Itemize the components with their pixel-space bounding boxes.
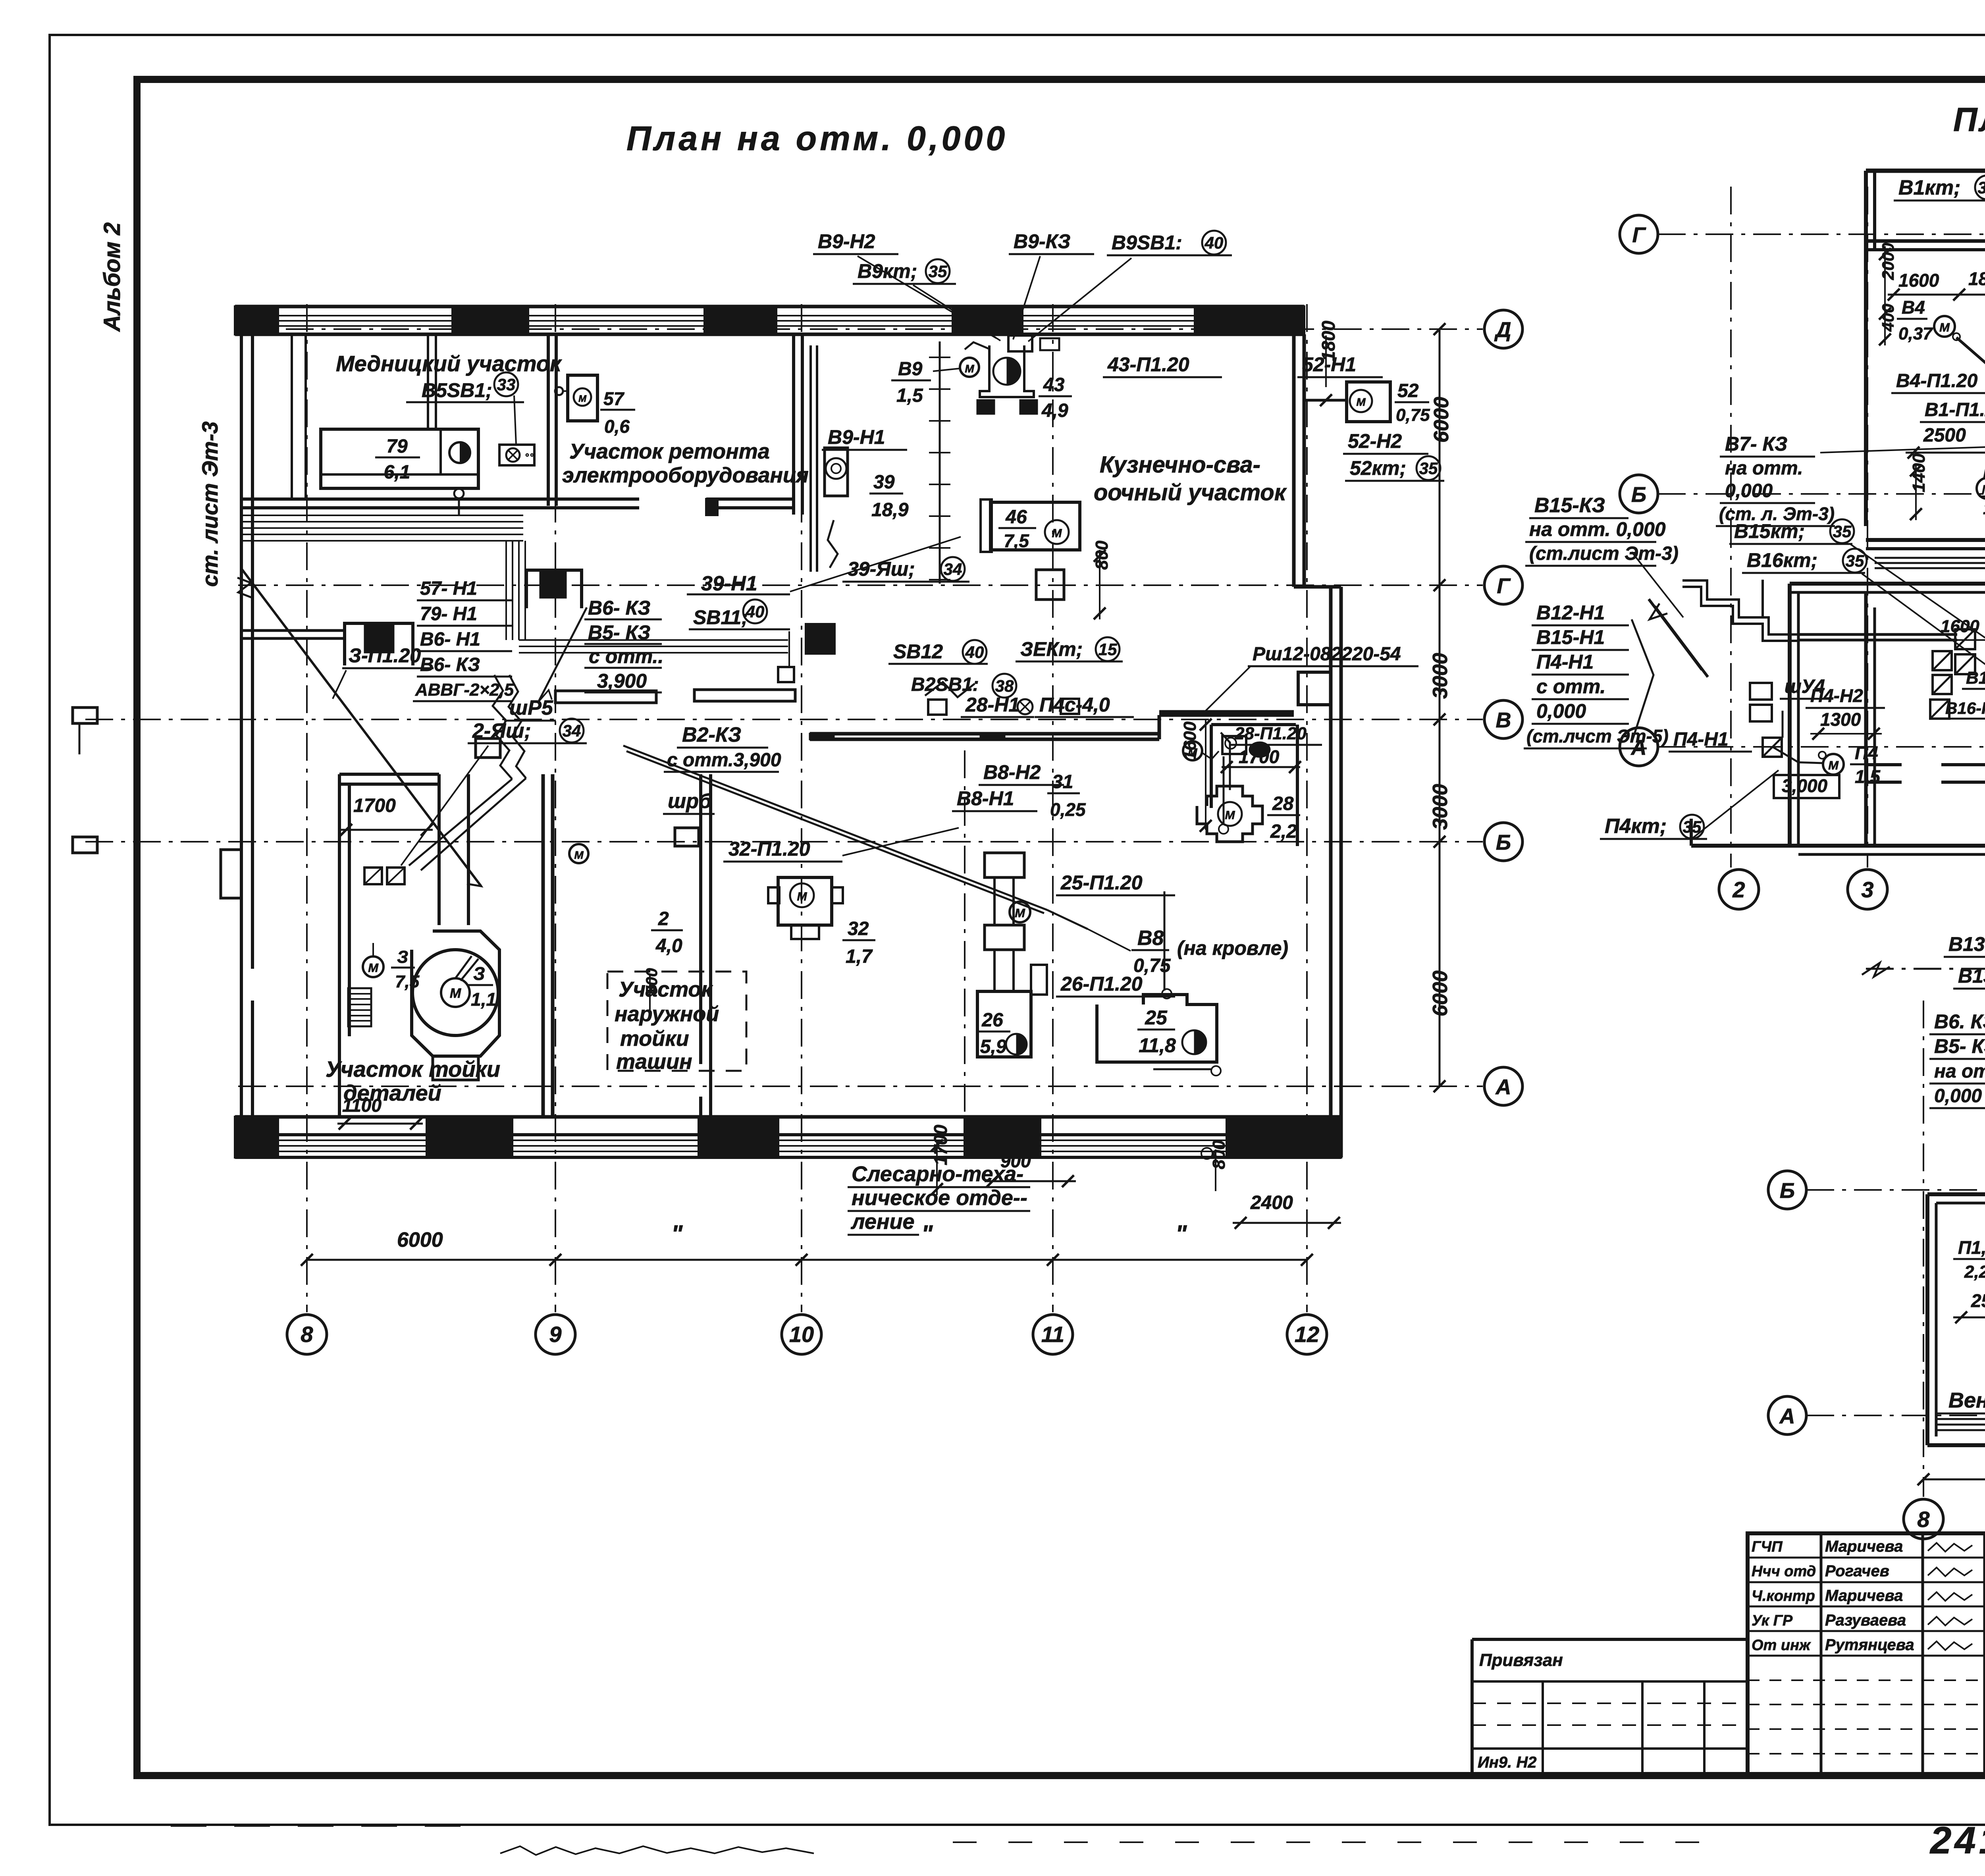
label B6-K3 block <box>584 597 663 692</box>
label B7-K3 block <box>1716 433 1835 526</box>
machine 26 column <box>977 853 1047 1057</box>
svg-text:2500: 2500 <box>1923 425 1966 446</box>
switch B15H2 row <box>1955 629 1975 674</box>
privyazan frame <box>1472 1639 1748 1776</box>
label B9-K3 <box>1009 230 1094 254</box>
svg-text:на отт.: на отт. <box>1934 1061 1985 1082</box>
axis column 10 line <box>801 304 802 1312</box>
svg-text:В5- КЗ: В5- КЗ <box>1934 1035 1985 1057</box>
left wall outer <box>240 307 243 1117</box>
wires knot SW <box>409 675 526 870</box>
svg-text:П1,1: П1,1 <box>1958 1237 1985 1258</box>
svg-text:43: 43 <box>1043 374 1065 395</box>
grid circle А (3.300) <box>1620 728 1658 766</box>
dim 800 v <box>1092 540 1112 619</box>
privyazan bottom row line <box>1472 1747 1748 1750</box>
label slesarno <box>848 1162 1030 1235</box>
svg-text:План на отм. 0,000: План на отм. 0,000 <box>626 120 1008 158</box>
svg-text:35: 35 <box>1846 551 1864 570</box>
svg-text:Г: Г <box>1632 223 1646 247</box>
svg-text:В6- Н1: В6- Н1 <box>420 629 480 650</box>
svg-text:3: 3 <box>1861 877 1873 902</box>
wire B4-B1 diag <box>1956 337 1985 451</box>
plan39 top boundary <box>1862 963 1985 977</box>
label 39/18.9 <box>869 472 909 521</box>
wire 52 <box>1304 394 1347 406</box>
top wall inner line <box>235 333 1304 336</box>
margin text ст.лист ЭМ-3 <box>197 421 222 587</box>
label B1-P1.20 <box>1920 399 1985 422</box>
grid circle 10 <box>782 1315 821 1354</box>
svg-text:39-Яш;: 39-Яш; <box>848 558 915 580</box>
left wall inner <box>251 334 254 1139</box>
svg-text:на отт.: на отт. <box>1725 458 1803 479</box>
svg-text:38: 38 <box>995 677 1014 695</box>
svg-text:М: М <box>1225 809 1235 822</box>
axis row В line <box>85 719 1483 720</box>
svg-text:А: А <box>1779 1404 1795 1428</box>
svg-text:0,37: 0,37 <box>1898 324 1933 343</box>
wire B9 vertical <box>811 345 817 572</box>
svg-text:": " <box>671 1220 683 1247</box>
wall mednitsky bottom right <box>706 499 795 515</box>
svg-text:В15-Н1: В15-Н1 <box>1536 626 1605 648</box>
svg-text:2: 2 <box>1732 877 1745 902</box>
svg-text:М: М <box>797 890 807 903</box>
label B9SB1 <box>1107 231 1232 255</box>
top wall piers <box>235 307 1266 334</box>
svg-text:1700: 1700 <box>353 795 396 816</box>
svg-text:0,25: 0,25 <box>1050 799 1086 820</box>
svg-text:Д: Д <box>1494 318 1511 342</box>
svg-text:М: М <box>1052 527 1062 540</box>
label 43-P1.20 <box>1103 353 1222 377</box>
leader B7-K3 <box>1820 445 1985 453</box>
svg-text:Рогачев: Рогачев <box>1825 1562 1889 1580</box>
wire B15 long <box>1798 634 1957 640</box>
motor corridor <box>569 844 588 863</box>
bottom wall second line <box>235 1133 1341 1136</box>
big machine wash <box>412 931 499 1080</box>
label 57/0.6 <box>600 388 635 437</box>
wire 28 <box>1221 733 1230 790</box>
svg-text:SВ12: SВ12 <box>893 640 943 663</box>
svg-text:900: 900 <box>1000 1151 1031 1171</box>
switch P4 <box>1763 738 1782 757</box>
svg-text:500: 500 <box>643 968 661 995</box>
label shR5 <box>504 696 556 721</box>
top wall glazing <box>278 316 1195 326</box>
switch B15 <box>1933 651 1952 694</box>
svg-text:В7: В7 <box>1983 463 1985 482</box>
label B3km <box>1016 637 1123 661</box>
svg-text:Г: Г <box>1497 574 1511 598</box>
label 3/1.1 <box>468 963 496 1010</box>
svg-text:2-Яш;: 2-Яш; <box>472 719 531 742</box>
svg-text:В9-КЗ: В9-КЗ <box>1014 230 1070 253</box>
box mid <box>1222 736 1270 758</box>
grid circle Б (3.900) <box>1768 1171 1806 1209</box>
bottom wall outer line <box>235 1156 1341 1159</box>
svg-text:План на отт. 3,300: План на отт. 3,300 <box>1953 101 1985 138</box>
svg-text:В6- КЗ: В6- КЗ <box>420 654 480 675</box>
svg-text:40: 40 <box>965 643 984 661</box>
svg-text:Привязан: Привязан <box>1479 1650 1563 1670</box>
NE room right wall <box>1296 725 1299 846</box>
svg-text:3000: 3000 <box>1429 653 1452 699</box>
bracket B12 block <box>1632 619 1654 742</box>
svg-text:(ст.лист Эт-3): (ст.лист Эт-3) <box>1529 543 1679 564</box>
svg-text:1,7: 1,7 <box>846 946 873 967</box>
label B1km <box>1894 175 1985 201</box>
dim 2000 400 v <box>1879 243 1897 345</box>
privyazan text <box>1479 1650 1563 1670</box>
plan33 G wall <box>1866 241 1985 250</box>
hearth 43 <box>977 345 1037 414</box>
signature table rows lower <box>1748 1680 1985 1754</box>
arrow B15-K3 <box>1649 599 1708 677</box>
label 28-P1.20 mid <box>1231 724 1322 745</box>
svg-text:В16-Н2: В16-Н2 <box>1945 699 1985 717</box>
svg-text:33: 33 <box>497 375 516 394</box>
label B4-P1.20 <box>1891 370 1985 393</box>
svg-text:25-П1.20: 25-П1.20 <box>1060 871 1143 894</box>
svg-text:М: М <box>450 986 461 1001</box>
label ventkamera lower39 <box>1948 1388 1985 1412</box>
dim 1600 midv <box>1180 719 1212 832</box>
svg-text:32: 32 <box>848 918 869 939</box>
motor 26 <box>1010 902 1030 922</box>
label kuznechno <box>1094 452 1287 505</box>
plan39 bottom dim <box>1918 1473 1985 1485</box>
wire 28 v <box>1219 756 1228 834</box>
svg-text:Б: Б <box>1780 1179 1795 1203</box>
svg-text:35: 35 <box>1978 178 1985 197</box>
svg-text:В9кт;: В9кт; <box>858 260 917 282</box>
label 25-P1.20 <box>1056 871 1175 895</box>
dim 1700 v2 <box>930 1124 951 1195</box>
machine 79 halfcircle <box>449 442 470 463</box>
grid circle В <box>1484 700 1522 738</box>
svg-text:28-П1.20: 28-П1.20 <box>1234 724 1307 743</box>
wall mednitsky bottom <box>240 499 639 508</box>
svg-text:35: 35 <box>1833 522 1852 541</box>
svg-text:электрооборудования: электрооборудования <box>562 463 809 487</box>
label 3000 box <box>1774 775 1839 798</box>
svg-text:1300: 1300 <box>1820 709 1861 730</box>
svg-text:15: 15 <box>1098 640 1117 659</box>
wire P4 <box>1772 711 1823 763</box>
svg-text:В12-Н1: В12-Н1 <box>1536 602 1605 624</box>
svg-text:Нчч отд: Нчч отд <box>1752 1563 1816 1580</box>
wire leader 3 <box>333 670 346 699</box>
mid wall west <box>555 690 795 703</box>
plan33 ventkamera bottom <box>1866 540 1985 549</box>
svg-text:4,0: 4,0 <box>655 935 682 956</box>
label 1700 mid <box>1221 746 1301 773</box>
dim 900 <box>985 1151 1076 1187</box>
plan33 lower-left block <box>1790 584 1985 846</box>
cabinet shR5 <box>476 738 500 758</box>
svg-text:0,000: 0,000 <box>1536 700 1586 722</box>
axis row А line (3.900) <box>1806 1415 1985 1416</box>
svg-text:1,5: 1,5 <box>1983 499 1985 518</box>
label SB11 <box>689 600 790 629</box>
east wall lower <box>1331 587 1341 1157</box>
motor P4 <box>1819 752 1844 775</box>
east wall notch <box>1298 672 1331 705</box>
svg-text:0,000: 0,000 <box>1725 480 1773 501</box>
label 28/2.2 <box>1267 793 1300 842</box>
svg-text:0,75: 0,75 <box>1396 405 1430 425</box>
svg-text:П4кт;: П4кт; <box>1605 815 1667 838</box>
label B9 M <box>891 358 979 406</box>
axis column 9 line <box>555 304 556 1312</box>
NE room left wall <box>1210 725 1213 808</box>
plan33 bottom wall <box>1691 819 1985 854</box>
svg-text:5,9: 5,9 <box>980 1036 1007 1057</box>
grid circle 9 <box>536 1315 575 1354</box>
label P4-H2 <box>1806 685 1885 740</box>
svg-text:Б: Б <box>1496 831 1511 854</box>
tray end box <box>778 631 794 682</box>
label B16-H2 <box>1941 699 1985 719</box>
signature table names <box>1752 1538 1985 1656</box>
dim 1700 left <box>339 795 433 836</box>
svg-text:1800: 1800 <box>1318 320 1339 361</box>
svg-text:М: М <box>1828 758 1839 772</box>
svg-text:2,2: 2,2 <box>1270 821 1297 842</box>
svg-text:3000: 3000 <box>1429 784 1452 830</box>
label B13km <box>1953 964 1985 989</box>
svg-text:Медницкий участок: Медницкий участок <box>336 351 562 376</box>
svg-text:40: 40 <box>1204 233 1224 252</box>
svg-text:1700: 1700 <box>1239 746 1280 767</box>
label B9km <box>853 259 956 284</box>
grid circle 8 (3.900) <box>1904 1499 1943 1539</box>
label 28-H1 <box>961 694 1034 717</box>
svg-text:Ч.контр: Ч.контр <box>1752 1588 1815 1604</box>
label B4/0.37 <box>1897 297 1933 343</box>
svg-text:с отт.: с отт. <box>1536 675 1605 698</box>
svg-text:0,6: 0,6 <box>604 416 630 437</box>
signature table columns <box>1821 1533 1985 1776</box>
axis row Г line <box>238 584 1483 586</box>
svg-text:ГЧП: ГЧП <box>1752 1539 1783 1555</box>
svg-text:34: 34 <box>944 560 962 578</box>
tray 33 left <box>1761 580 1764 617</box>
svg-text:0,75: 0,75 <box>1133 955 1171 976</box>
label B7/1.5 <box>1979 463 1985 518</box>
svg-text:6000: 6000 <box>1429 970 1452 1016</box>
label B15km (33) <box>1729 519 1854 544</box>
plan33 left wall upper <box>1866 171 1875 526</box>
signature table frame <box>1748 1533 1985 1776</box>
svg-text:М: М <box>1939 320 1950 334</box>
bottom edge dashes <box>171 1826 1707 1842</box>
svg-text:(на кровле): (на кровле) <box>1177 937 1288 959</box>
privyazan dashes <box>1472 1703 1748 1725</box>
wire mid knot <box>925 682 1079 715</box>
wires to machine 79 <box>292 335 436 499</box>
svg-text:2400: 2400 <box>1250 1192 1293 1213</box>
wire 3 diagonal <box>237 569 481 886</box>
leader B16km <box>1862 574 1985 667</box>
fixture 39 <box>825 448 848 496</box>
machine 79 pendant <box>454 489 464 516</box>
title plan 3.300 <box>1953 101 1985 138</box>
label B8-H1 <box>952 787 1037 811</box>
room wash-details left wall <box>339 774 349 1036</box>
svg-text:В: В <box>1496 708 1511 732</box>
left stub wall 2 <box>73 837 97 853</box>
dim ditto 1 <box>671 1220 683 1247</box>
svg-text:1100: 1100 <box>342 1095 382 1116</box>
svg-text:В6. КЗ: В6. КЗ <box>1934 1010 1985 1033</box>
switch B16 <box>1930 700 1949 719</box>
machine 52 box <box>1347 382 1390 422</box>
room wash-details right wall <box>543 774 553 1117</box>
svg-text:М: М <box>1356 396 1366 408</box>
axis row А line <box>238 1085 1483 1087</box>
svg-text:Разуваева: Разуваева <box>1825 1612 1906 1629</box>
machine 25 <box>1097 995 1217 1062</box>
pier P1 <box>345 623 413 665</box>
svg-text:М: М <box>1015 906 1025 920</box>
svg-text:ЗЕКт;: ЗЕКт; <box>1020 638 1083 660</box>
svg-text:Рутянцева: Рутянцева <box>1825 1636 1914 1654</box>
svg-text:11,8: 11,8 <box>1139 1034 1176 1057</box>
label P4km <box>1600 815 1707 839</box>
label B5SB1 <box>406 372 524 402</box>
svg-text:с отт.3,900: с отт.3,900 <box>667 750 781 771</box>
right dimension line <box>1434 323 1445 1092</box>
svg-text:(ст. л. Эт-3): (ст. л. Эт-3) <box>1719 503 1835 524</box>
wall P1 left <box>241 630 345 638</box>
svg-text:25: 25 <box>1145 1006 1168 1029</box>
svg-text:12: 12 <box>1295 1322 1319 1347</box>
svg-text:В9: В9 <box>898 359 923 380</box>
svg-text:В9SВ1:: В9SВ1: <box>1112 231 1182 254</box>
dim text 6000 <box>397 1228 443 1251</box>
svg-text:П4-Н1: П4-Н1 <box>1536 651 1594 673</box>
svg-text:Ин9. Н2: Ин9. Н2 <box>1478 1754 1537 1771</box>
svg-text:тойки: тойки <box>620 1027 689 1051</box>
plan33 top wall <box>1866 159 1985 177</box>
label 43/4.9 <box>1039 374 1072 421</box>
svg-text:В8: В8 <box>1137 927 1164 950</box>
privyazan verticals <box>1543 1681 1704 1776</box>
grid circle 3 (3.300) <box>1848 870 1887 909</box>
label P4/1.5 <box>1850 742 1881 787</box>
plan39 left room top <box>1927 1194 1985 1203</box>
grid circle Г (3.300) <box>1620 215 1658 253</box>
dim 500 <box>643 968 661 1010</box>
cabinet shrb <box>675 828 699 846</box>
svg-text:2: 2 <box>658 908 669 929</box>
svg-text:2,2: 2,2 <box>1964 1262 1985 1282</box>
label 52-H1 <box>1297 353 1383 377</box>
svg-text:34: 34 <box>563 721 581 740</box>
svg-text:П4-Н2: П4-Н2 <box>1810 685 1863 706</box>
svg-text:1600: 1600 <box>1898 270 1939 291</box>
machine 79 rect <box>321 429 478 488</box>
svg-text:0,000: 0,000 <box>1934 1085 1982 1107</box>
svg-text:В2-КЗ: В2-КЗ <box>682 723 741 746</box>
svg-text:Маричева: Маричева <box>1825 1587 1903 1604</box>
label elektro room <box>562 440 809 487</box>
wires B9 top <box>858 256 1131 349</box>
box shU4 <box>1750 683 1772 721</box>
svg-text:28: 28 <box>1272 793 1294 814</box>
svg-text:М: М <box>1982 482 1985 496</box>
small box below 46 <box>1036 570 1064 600</box>
label block 57-79-B6 <box>413 578 514 701</box>
NE room top wall <box>1211 723 1296 726</box>
svg-text:М: М <box>965 362 974 375</box>
stairs hatch <box>348 988 371 1026</box>
axis column 8 line (3.900) <box>1923 1001 1924 1497</box>
cable tray bundle vertical <box>506 541 525 640</box>
svg-text:35: 35 <box>929 262 947 281</box>
label naruzhnaya <box>615 978 719 1074</box>
svg-text:В4: В4 <box>1902 297 1925 318</box>
axis column 3 line (3.300) <box>1867 187 1868 868</box>
plan33 interior wall band <box>1866 760 1985 782</box>
label B8 <box>1131 927 1288 976</box>
label B9-H1 <box>822 426 907 450</box>
svg-text:В7- КЗ: В7- КЗ <box>1725 433 1787 455</box>
axis column 12 line <box>1306 304 1308 1312</box>
svg-text:ст. лист Эт-3: ст. лист Эт-3 <box>197 421 222 587</box>
svg-text:В15-КЗ: В15-КЗ <box>1534 494 1605 517</box>
label 39-ASh <box>842 557 969 582</box>
svg-text:32-П1.20: 32-П1.20 <box>728 838 810 860</box>
svg-text:Участок тойки: Участок тойки <box>326 1057 500 1082</box>
wall mednitsky right <box>548 335 556 506</box>
svg-text:6,1: 6,1 <box>384 462 410 483</box>
handwritten 24128-02 <box>1929 1819 1985 1862</box>
svg-text:28-Н1: 28-Н1 <box>965 694 1019 716</box>
svg-text:А: А <box>1495 1075 1511 1099</box>
pier P2 <box>526 570 582 608</box>
svg-text:26: 26 <box>981 1010 1003 1031</box>
svg-text:9: 9 <box>549 1322 561 1347</box>
svg-text:1700: 1700 <box>930 1124 951 1165</box>
label shrb <box>663 790 715 814</box>
slesarno left wall <box>964 750 966 1116</box>
label 1400 v <box>1909 453 1929 520</box>
svg-text:7,5: 7,5 <box>395 972 420 991</box>
svg-text:24128 -02: 24128 -02 <box>1929 1819 1985 1862</box>
svg-text:Альбом 2: Альбом 2 <box>99 222 125 332</box>
svg-text:В8-Н2: В8-Н2 <box>983 761 1041 783</box>
label 26/5.9 <box>977 1010 1027 1057</box>
svg-text:на отт. 0,000: на отт. 0,000 <box>1529 518 1666 540</box>
svg-text:": " <box>1176 1220 1187 1247</box>
dim 6000 v2 <box>1429 970 1452 1016</box>
corridor right wall <box>701 774 711 1117</box>
svg-text:4,9: 4,9 <box>1041 400 1068 421</box>
svg-text:В13-П1.20: В13-П1.20 <box>1948 933 1985 955</box>
svg-text:В1-П1.20: В1-П1.20 <box>1925 399 1985 420</box>
dim ditto 2 <box>921 1220 933 1247</box>
svg-text:М: М <box>574 849 584 861</box>
svg-text:26-П1.20: 26-П1.20 <box>1060 973 1143 995</box>
label shU4 <box>1780 676 1833 699</box>
grid circle А (3.900) <box>1768 1396 1806 1434</box>
cable tray bundle east <box>519 640 788 653</box>
